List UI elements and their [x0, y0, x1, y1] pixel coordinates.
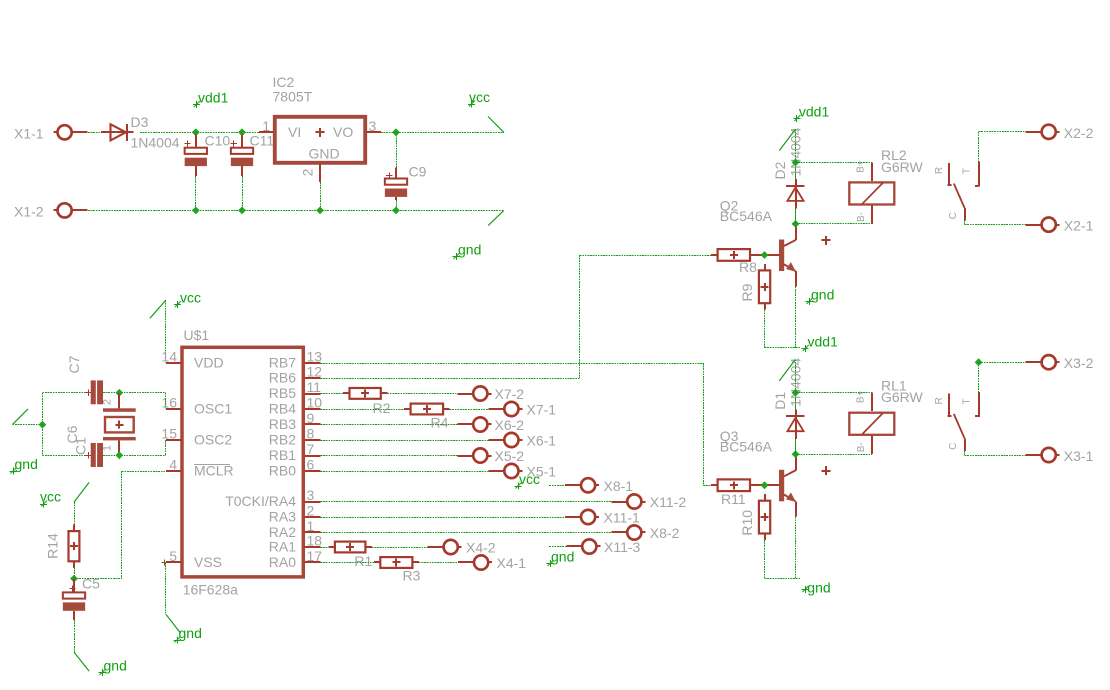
connector pad X6-2 [457, 417, 524, 433]
wire RB6 riser [579, 255, 581, 378]
wire T to X2-2 horizontal [979, 131, 1026, 133]
svg-text:1: 1 [102, 445, 114, 451]
resistor R2 [343, 388, 391, 416]
wire X3-2 to T vertical [978, 362, 980, 392]
wire bend to pin 16 [165, 393, 167, 409]
svg-text:4: 4 [169, 457, 177, 473]
resistor R9 [739, 264, 770, 310]
pin 18 RA1 [269, 533, 323, 555]
svg-text:R1: R1 [354, 553, 372, 569]
wire Q2 emitter down [795, 286, 797, 347]
svg-text:6: 6 [307, 457, 315, 473]
wire D3 to IC2 VI [140, 132, 259, 134]
pin 3 of IC2 [367, 118, 381, 134]
wire RA0 to R3 [321, 562, 374, 564]
pin 2 RA3 [269, 503, 321, 525]
wire RB2 to X6-1 [321, 440, 489, 442]
wire C down X2 [964, 221, 966, 225]
svg-text:X6-1: X6-1 [527, 433, 557, 449]
wire to R8 [580, 255, 711, 257]
svg-text:VSS: VSS [194, 554, 222, 570]
svg-text:15: 15 [161, 426, 177, 442]
diode D1 [772, 358, 805, 455]
transistor Q2 [720, 198, 796, 287]
svg-text:RB3: RB3 [269, 416, 296, 432]
svg-text:RB4: RB4 [269, 401, 296, 417]
connector pad X4-2 [428, 540, 496, 556]
wire RB0 to X5-1 [321, 471, 489, 473]
capacitor C9 plates [385, 164, 427, 197]
relay contact T X3 [962, 392, 980, 417]
connector pad X11-2 [611, 494, 686, 510]
relay contact arm X2 [954, 184, 965, 209]
svg-text:gnd: gnd [811, 287, 834, 303]
wire R3 to X4-1 [419, 562, 458, 564]
svg-text:C9: C9 [409, 164, 427, 180]
connector pad X11-1 [565, 510, 640, 526]
svg-text:RB7: RB7 [269, 355, 296, 371]
wire gnd rail [88, 210, 504, 212]
svg-text:12: 12 [307, 364, 323, 380]
wire R8 to base [750, 254, 779, 256]
wire R4 to X7-1 [450, 409, 489, 411]
diode D3 [101, 114, 180, 151]
pin 17 RA0 [269, 548, 323, 570]
wire gnd to X11-3 [549, 546, 566, 548]
pin 6 RB0 [269, 457, 321, 479]
connector pad X5-2 [457, 448, 524, 464]
svg-text:D2: D2 [772, 161, 788, 179]
svg-text:C10: C10 [205, 133, 231, 149]
wire C5 to gnd [73, 611, 76, 652]
svg-text:17: 17 [307, 548, 323, 564]
wire gnd rail Q2 [765, 347, 801, 349]
wire R10 to gnd rail [764, 540, 766, 578]
wire MCLR vertical [121, 471, 123, 579]
connector pad X8-2 [611, 525, 679, 541]
svg-text:VDD: VDD [194, 355, 224, 371]
svg-text:GND: GND [309, 146, 340, 162]
supply label vcc for U$1 [174, 290, 201, 309]
net stub gnd VSS [166, 614, 181, 633]
svg-text:18: 18 [307, 533, 323, 549]
junction crystal pin2 [115, 389, 123, 397]
wire to R11 [704, 485, 712, 487]
svg-text:G6RW: G6RW [881, 159, 924, 175]
wire coil bottom rail RL1 [796, 454, 872, 456]
wire coil bottom rail [796, 223, 872, 225]
net stub vcc for U$1 [150, 300, 166, 318]
junction gnd rail at C9 [392, 207, 400, 215]
net stub gnd crystal [12, 409, 28, 425]
resistor R14 [45, 525, 80, 568]
net stub vdd1 Q3 [779, 359, 795, 381]
svg-text:gnd: gnd [458, 242, 481, 258]
svg-text:11: 11 [307, 379, 322, 395]
svg-text:C: C [948, 443, 959, 450]
junction gnd rail at C11 [238, 207, 246, 215]
svg-text:U$1: U$1 [184, 327, 210, 343]
wire coil top rail [796, 162, 872, 164]
pin 2 of IC2 [300, 165, 321, 179]
svg-text:D3: D3 [131, 114, 149, 130]
connector pad X1-2 [14, 203, 88, 219]
junction Q3 collector D1 [792, 450, 800, 458]
svg-text:BC546A: BC546A [720, 208, 773, 224]
pin 5 VSS [161, 548, 222, 570]
pin 14 VDD [161, 349, 223, 371]
relay contact R X2 [934, 163, 952, 185]
resistor R4 [404, 404, 450, 431]
svg-text:B+: B+ [855, 160, 866, 173]
wire R9 to gnd rail [764, 310, 766, 348]
supply label gnd X11-3 [547, 549, 575, 568]
wire RA2 to X8-2 [321, 532, 612, 534]
wire OSC1 row left [42, 392, 89, 394]
svg-text:B+: B+ [855, 390, 866, 403]
connector pad X11-3 [566, 539, 640, 555]
wire IC2 VO to vcc [381, 132, 504, 134]
svg-text:D1: D1 [772, 392, 788, 410]
junction Q2 base [761, 251, 769, 259]
wire vcc to pin 14 [165, 300, 167, 363]
svg-text:C11: C11 [250, 133, 275, 149]
svg-text:R9: R9 [739, 283, 755, 301]
svg-text:RB2: RB2 [269, 432, 296, 448]
origin cross RL1 [822, 466, 831, 475]
relay contact R X3 [934, 394, 952, 416]
connector pad X3-2 [1026, 355, 1094, 371]
wire MCLR to R14 [74, 578, 122, 580]
wire R1 to X4-2 [372, 547, 428, 549]
junction Q2 collector D2 [792, 220, 800, 228]
pin 3 T0CKI/RA4 [225, 487, 320, 509]
crystal Q1 [102, 393, 136, 456]
wire R2 to X7-2 [387, 393, 458, 395]
connector pad X2-2 [1026, 125, 1094, 141]
connector pad X3-1 [1026, 448, 1094, 464]
net stub vcc R14 [74, 482, 89, 502]
wire C6 to OSC2 bend [103, 455, 166, 457]
connector pad X2-1 [1026, 218, 1094, 234]
svg-text:X4-2: X4-2 [466, 540, 496, 556]
svg-text:G6RW: G6RW [881, 389, 924, 405]
relay coil RL1 [849, 377, 923, 454]
svg-text:RB1: RB1 [269, 447, 296, 463]
connector pad X7-1 [488, 402, 556, 418]
net stub gnd C5 [74, 652, 89, 671]
svg-text:R14: R14 [45, 533, 61, 559]
supply label gnd Q2 [806, 287, 835, 306]
wire RB7 riser [703, 363, 705, 485]
wire RA3 to X11-1 [321, 517, 566, 519]
svg-text:5: 5 [169, 548, 177, 564]
svg-text:VI: VI [288, 124, 301, 140]
pin 7 RB1 [269, 441, 321, 463]
svg-text:2: 2 [300, 168, 316, 176]
capacitor C5 [69, 579, 75, 593]
supply label gnd C5 [99, 658, 127, 677]
svg-text:2: 2 [307, 503, 315, 519]
svg-text:X3-1: X3-1 [1064, 448, 1094, 464]
svg-text:1: 1 [262, 118, 270, 134]
wire RB5 to R2 [321, 393, 345, 395]
svg-text:X5-2: X5-2 [495, 448, 525, 464]
junction R14 C5 [70, 575, 78, 583]
svg-text:X7-1: X7-1 [527, 402, 557, 418]
svg-text:X11-3: X11-3 [604, 539, 641, 555]
wire RB6 horizontal [321, 378, 580, 380]
svg-text:8: 8 [307, 426, 315, 442]
resistor R11 [711, 479, 756, 506]
wire RB7 horizontal [321, 363, 704, 365]
svg-text:R11: R11 [721, 491, 746, 507]
svg-text:T: T [962, 398, 973, 404]
svg-text:X8-2: X8-2 [650, 525, 680, 541]
relay common C X3 [948, 438, 965, 451]
svg-text:vcc: vcc [469, 89, 490, 105]
supply label vcc R14 [40, 489, 61, 508]
svg-text:X2-1: X2-1 [1064, 218, 1094, 234]
capacitor C10 [184, 134, 196, 148]
connector pad X5-1 [488, 464, 556, 480]
supply label gnd Q3 rail [802, 580, 831, 596]
junction D2 top [792, 159, 800, 167]
svg-text:7: 7 [307, 441, 315, 457]
junction gnd rail at C10 [192, 207, 200, 215]
svg-text:gnd: gnd [15, 456, 38, 472]
pin 1 of IC2 [259, 118, 273, 134]
svg-text:RB5: RB5 [269, 385, 296, 401]
wire MCLR horizontal [122, 471, 166, 473]
pin 10 RB4 [269, 395, 323, 417]
svg-text:R8: R8 [739, 259, 757, 275]
supply label gnd VSS [174, 625, 202, 644]
svg-text:B-: B- [856, 442, 867, 452]
svg-text:R2: R2 [373, 400, 391, 416]
svg-text:vcc: vcc [519, 471, 540, 487]
supply label vcc X8-1 [515, 471, 541, 490]
svg-text:gnd: gnd [104, 658, 127, 674]
junction crystal gnd [39, 421, 47, 429]
svg-text:X2-2: X2-2 [1064, 125, 1094, 141]
svg-text:X8-1: X8-1 [604, 478, 634, 494]
svg-text:RA1: RA1 [269, 539, 296, 555]
svg-text:B-: B- [856, 212, 867, 222]
junction crystal pin1 [115, 451, 123, 459]
junction Q3 base [761, 481, 769, 489]
svg-text:RA0: RA0 [269, 554, 296, 570]
svg-text:X1-1: X1-1 [14, 126, 44, 142]
wire coil top rail RL1 [796, 392, 872, 394]
capacitor C7 [66, 355, 103, 404]
svg-text:vcc: vcc [180, 290, 201, 306]
svg-text:vdd1: vdd1 [799, 104, 830, 120]
capacitor C11 plates [231, 133, 275, 167]
pin 8 RB2 [269, 426, 321, 448]
svg-text:T0CKI/RA4: T0CKI/RA4 [225, 493, 296, 509]
svg-text:R: R [934, 397, 945, 404]
svg-text:1N4004: 1N4004 [131, 135, 180, 151]
svg-text:X11-1: X11-1 [604, 510, 641, 526]
wire vcc to R14 [74, 502, 76, 525]
svg-text:gnd: gnd [551, 549, 574, 565]
pin 11 RB5 [269, 379, 321, 401]
svg-text:10: 10 [307, 395, 323, 411]
net stub vdd1 Q2 [779, 129, 795, 151]
junction vdd1 rail at C11 [238, 128, 246, 136]
svg-text:VO: VO [333, 124, 353, 140]
svg-text:RB6: RB6 [269, 370, 296, 386]
svg-text:16F628a: 16F628a [183, 582, 238, 598]
svg-text:X11-2: X11-2 [650, 494, 687, 510]
connector pad X4-1 [458, 555, 526, 571]
svg-text:T: T [962, 168, 973, 174]
wire C down X3 [964, 451, 966, 455]
svg-text:2: 2 [102, 399, 114, 405]
svg-text:vdd1: vdd1 [198, 90, 229, 106]
wire C to X2-1 [965, 224, 1026, 226]
pin 4 MCLR [166, 457, 234, 479]
svg-text:13: 13 [307, 349, 323, 365]
svg-text:X3-2: X3-2 [1064, 355, 1094, 371]
diode D2 [772, 127, 805, 224]
relay coil RL2 [849, 147, 923, 224]
svg-text:gnd: gnd [807, 580, 830, 596]
svg-text:3: 3 [369, 118, 377, 134]
capacitor C10 plates [185, 133, 231, 167]
supply label vdd1 [193, 90, 229, 109]
wire RB3 to X6-2 [321, 424, 458, 426]
svg-text:R3: R3 [403, 568, 421, 584]
supply label gnd [453, 242, 482, 261]
svg-text:3: 3 [307, 487, 315, 503]
svg-text:16: 16 [161, 395, 177, 411]
supply label vdd1 Q3 [802, 334, 838, 353]
resistor R8 [711, 249, 757, 275]
svg-text:X6-2: X6-2 [495, 417, 525, 433]
net stub gnd [488, 210, 504, 225]
wire IC2 GND pin2 down [319, 179, 322, 211]
supply label vcc [468, 89, 490, 108]
relay contact T X2 [962, 162, 980, 187]
resistor R10 [739, 494, 770, 540]
svg-text:C5: C5 [82, 576, 100, 592]
wire OSC2 row left [42, 455, 89, 457]
wire R14 to junction [74, 567, 76, 579]
wire X1-1 to D3 [88, 132, 101, 134]
wire gnd rail Q3 [765, 578, 801, 580]
capacitor C6 [64, 425, 103, 467]
wire gnd stub horizontal [12, 424, 42, 426]
wire C9 to gnd rail [395, 197, 398, 211]
svg-text:9: 9 [307, 410, 315, 426]
capacitor C5 plates [63, 576, 100, 611]
resistor R1 [328, 542, 372, 569]
wire C7 to OSC1 bend [103, 392, 166, 394]
svg-text:BC546A: BC546A [720, 438, 773, 454]
ic U$1 16F628a body [182, 327, 303, 598]
pin 13 RB7 [269, 349, 323, 371]
relay contact arm X3 [954, 414, 965, 439]
svg-text:RB0: RB0 [269, 463, 296, 479]
resistor R3 [374, 557, 421, 583]
wire bend to pin 15 [165, 440, 167, 455]
wire RA4 to X11-2 [321, 501, 612, 503]
junction vdd1 rail at C10 [192, 128, 200, 136]
svg-text:R4: R4 [431, 415, 449, 431]
junction X3-2 node [975, 358, 983, 366]
wire RB1 to X5-2 [321, 455, 458, 457]
wire C10 to gnd rail [195, 166, 198, 210]
svg-text:7805T: 7805T [273, 89, 313, 105]
connector pad X7-2 [457, 386, 524, 402]
transistor Q3 [720, 428, 796, 517]
svg-text:X1-2: X1-2 [14, 204, 44, 220]
connector pad X1-1 [14, 125, 88, 141]
wire T to X2-2 vertical [978, 132, 980, 162]
supply label vdd1 Q2 [793, 104, 829, 123]
voltage regulator IC2 7805T [273, 74, 366, 163]
wire C11 to gnd rail [241, 166, 244, 210]
svg-text:gnd: gnd [179, 625, 202, 641]
svg-text:14: 14 [161, 349, 177, 365]
wire C to X3-1 [965, 455, 1026, 457]
svg-text:vdd1: vdd1 [808, 334, 839, 350]
svg-text:RA3: RA3 [269, 509, 296, 525]
pin 15 OSC2 [161, 426, 232, 448]
wire vdd1 stub Q3 [795, 359, 797, 392]
wire Q3 emitter down [795, 517, 797, 578]
wire RB4 to R4 [321, 409, 405, 411]
svg-text:C1: C1 [73, 437, 89, 455]
svg-text:R: R [934, 167, 945, 174]
wire X3-2 horizontal [979, 362, 1026, 364]
junction gnd rail at IC2 GND [316, 207, 324, 215]
svg-text:C: C [948, 212, 959, 219]
connector pad X8-1 [565, 478, 633, 494]
capacitor C11 [231, 134, 243, 148]
wire vcc rail to C9 [386, 132, 397, 179]
wire VSS down [165, 563, 167, 615]
origin cross RL2 [822, 236, 831, 245]
junction vcc rail at C9 [392, 128, 400, 136]
pin 16 OSC1 [161, 395, 232, 417]
svg-text:R10: R10 [739, 510, 755, 536]
svg-text:C7: C7 [66, 355, 82, 373]
wire RA1 to R1 [321, 547, 329, 549]
pin 9 RB3 [269, 410, 321, 432]
relay common C X2 [948, 208, 965, 221]
supply label gnd crystal [10, 456, 38, 475]
svg-text:X4-1: X4-1 [497, 555, 527, 571]
wire vdd1 stub Q2 [795, 129, 797, 162]
pin 12 RB6 [269, 364, 323, 386]
svg-text:OSC2: OSC2 [194, 432, 232, 448]
wire vcc to X8-1 [549, 485, 565, 487]
wire R11 to base [750, 484, 779, 486]
svg-text:X7-2: X7-2 [495, 386, 525, 402]
net stub vcc [488, 117, 504, 133]
wire crystal gnd vertical [42, 393, 44, 456]
junction D1 top [792, 389, 800, 397]
pin 1 RA2 [269, 518, 321, 540]
connector pad X6-1 [488, 433, 556, 449]
svg-text:OSC1: OSC1 [194, 401, 232, 417]
